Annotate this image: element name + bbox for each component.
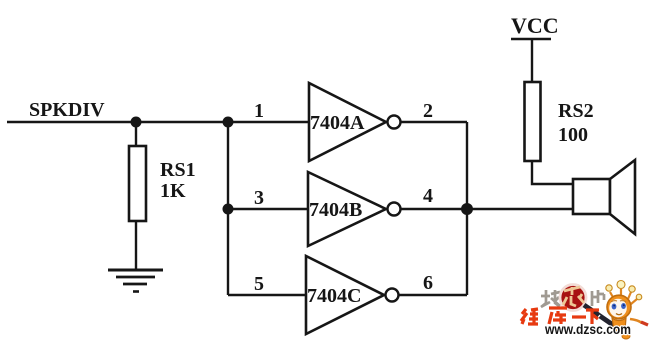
svg-text:100: 100 [558, 124, 588, 146]
svg-text:7404C: 7404C [307, 285, 361, 307]
inverter U1A 7404A triangle [309, 83, 386, 161]
wire output A [401, 121, 467, 123]
svg-text:SPKDIV: SPKDIV [29, 99, 105, 121]
watermark text wei ku yi xia red [521, 308, 599, 324]
wire output B [401, 208, 467, 210]
svg-text:1K: 1K [160, 180, 186, 202]
svg-text:RS1: RS1 [160, 159, 196, 181]
watermark char xin (chip) inside magnifier [563, 287, 584, 306]
wire output C [399, 294, 467, 296]
wire output collector vertical [466, 122, 468, 295]
watermark char zhao (find) gray [541, 290, 560, 307]
ground [108, 270, 163, 292]
wire inverter input bus vertical [227, 122, 229, 295]
inverter U1B output bubble [388, 203, 401, 216]
svg-text:VCC: VCC [511, 13, 559, 38]
junction at output node [461, 203, 473, 215]
power VCC rail bar [511, 38, 551, 40]
svg-text:4: 4 [423, 185, 433, 207]
watermark logo group [521, 281, 648, 340]
junction at inverter bus tap [223, 117, 234, 128]
watermark magnifier handle [584, 305, 616, 327]
junction at RS1 tap [131, 117, 142, 128]
svg-text:7404B: 7404B [309, 199, 362, 221]
wire RS1 top lead [135, 122, 137, 146]
svg-text:5: 5 [254, 273, 264, 295]
watermark mascot [606, 281, 648, 340]
svg-text:6: 6 [423, 272, 433, 294]
speaker LS1 horn [610, 160, 635, 234]
resistor RS2 body [525, 82, 541, 161]
wire VCC to RS2 [531, 39, 533, 82]
svg-text:1: 1 [254, 100, 264, 122]
inverter U1C 7404C triangle [306, 256, 384, 334]
svg-text:7404A: 7404A [310, 112, 365, 134]
svg-text:3: 3 [254, 187, 264, 209]
resistor RS1 body [129, 146, 146, 221]
watermark magnifier ring [560, 285, 586, 311]
watermark char pian (piece) gray [592, 290, 604, 306]
inverter U1C output bubble [386, 289, 399, 302]
wire RS2 to speaker [532, 161, 573, 184]
svg-text:2: 2 [423, 100, 433, 122]
wire to pin 5 [228, 294, 306, 296]
inverter U1B 7404B triangle [308, 172, 386, 246]
junction at pin 3 branch [223, 204, 234, 215]
wire to pin 3 [228, 208, 308, 210]
wire RS1 bottom lead [135, 221, 137, 269]
wire output node to speaker [467, 208, 573, 210]
svg-text:www.dzsc.com: www.dzsc.com [544, 322, 631, 337]
wire main input horizontal [7, 121, 309, 124]
speaker LS1 body [573, 179, 610, 214]
inverter U1A output bubble [388, 116, 401, 129]
svg-text:RS2: RS2 [558, 100, 594, 122]
